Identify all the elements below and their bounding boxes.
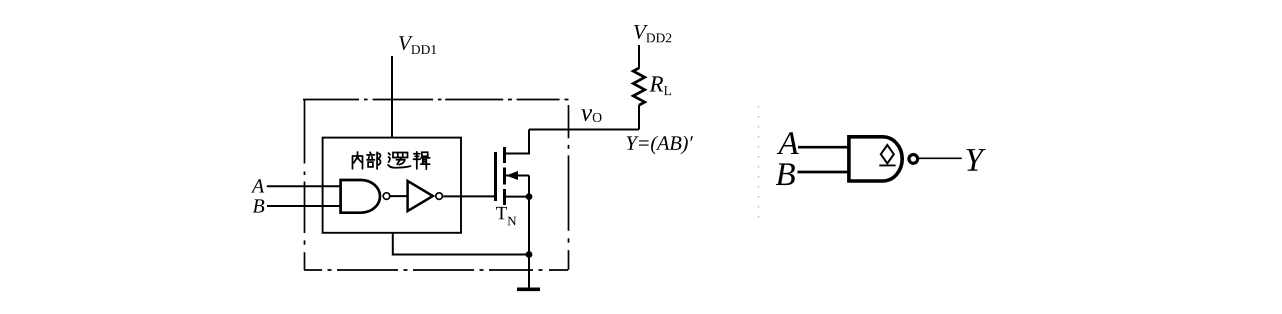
- wire inverter to MOS gate: [443, 195, 494, 197]
- input label A: [251, 179, 264, 192]
- source stub: [506, 196, 529, 198]
- open-drain diamond symbol: [881, 145, 894, 163]
- diamond underline: [879, 164, 895, 166]
- VDD1 label: [399, 36, 436, 54]
- 内: [353, 152, 363, 169]
- NMOS channel segments: [503, 147, 506, 205]
- label 内部逻辑 (internal logic), hand-drawn glyphs: [353, 152, 430, 169]
- NAND output bubble: [383, 193, 390, 200]
- return wire from logic box bottom: [393, 233, 529, 255]
- 逻: [388, 153, 410, 168]
- resistor RL zigzag: [633, 68, 645, 105]
- RL label: [649, 76, 671, 95]
- ground symbol: [517, 287, 540, 291]
- Y=(AB)' label: [627, 136, 693, 155]
- faint dotted separator line: [758, 106, 760, 219]
- 部: [367, 152, 380, 169]
- NMOS transistor TN : gate bar: [494, 152, 497, 201]
- 辑: [414, 152, 430, 169]
- TN label: [496, 207, 516, 225]
- wire drain to resistor (vO node): [529, 129, 639, 131]
- wire input A: [798, 146, 850, 149]
- wire output Y: [919, 157, 962, 159]
- wire resistor down to vO wire: [638, 105, 640, 130]
- wire from source down to ground: [528, 197, 530, 288]
- wire VDD1 down into box: [391, 56, 393, 138]
- inner logic box: [323, 138, 461, 233]
- output label Y: [966, 149, 985, 171]
- drain stub and riser: [506, 130, 529, 154]
- VDD2 label: [634, 25, 671, 42]
- inverter bubble: [436, 193, 443, 200]
- junction dot at source: [526, 193, 533, 200]
- input label A: [777, 132, 799, 154]
- wire input A: [267, 185, 343, 187]
- NAND gate body: [849, 137, 902, 181]
- NAND gate inside logic box: [341, 180, 380, 213]
- vO label: [581, 109, 601, 122]
- wire input B: [267, 205, 343, 207]
- body stub with arrow: [506, 175, 529, 177]
- dash-dot chip boundary box: [303, 100, 569, 271]
- wire input B: [798, 171, 851, 174]
- inverter triangle: [408, 181, 433, 211]
- input label B: [253, 199, 265, 212]
- wire VDD2 to resistor: [638, 45, 640, 69]
- wire NAND to inverter: [390, 195, 407, 197]
- output bubble: [909, 155, 918, 164]
- junction dot return wire: [526, 251, 533, 258]
- input label B: [776, 163, 795, 185]
